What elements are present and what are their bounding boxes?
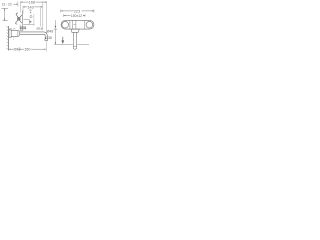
- vertical dim right: [54, 20, 57, 44]
- svg-text:G: G: [29, 8, 31, 12]
- right labels: [45, 29, 53, 40]
- body centerline below: [12, 37, 14, 40]
- vertical dim 13-23: [2, 8, 9, 20]
- body front view: [61, 20, 94, 29]
- handle foot nut: [20, 27, 25, 29]
- valve box: [23, 19, 34, 24]
- dim 223 right: [61, 10, 94, 14]
- svg-text:Ø48: Ø48: [47, 29, 54, 33]
- faucet body: [11, 31, 20, 37]
- svg-text:G38: G38: [45, 36, 52, 40]
- baseline: [54, 43, 73, 45]
- svg-text:168: 168: [29, 1, 35, 5]
- aerator: [45, 39, 48, 41]
- svg-text:223: 223: [74, 10, 80, 14]
- escutcheon: [9, 30, 11, 37]
- dim 143 line: [23, 6, 43, 10]
- svg-text:150: 150: [24, 48, 30, 52]
- union hooks on wall: [9, 28, 12, 31]
- spout: [20, 32, 48, 39]
- label 13-23: [2, 1, 18, 6]
- dim 168 line: [21, 1, 47, 5]
- cross handle: [15, 13, 22, 24]
- handle base cylinder: [19, 25, 21, 31]
- svg-text:13 - 23: 13 - 23: [2, 2, 12, 6]
- spout collar front: [71, 29, 79, 32]
- svg-text:59: 59: [14, 48, 18, 52]
- spout stem front: [73, 32, 76, 49]
- flow arrow: [62, 37, 64, 41]
- G symbol stack: [29, 8, 32, 18]
- dim 150+-12 right: [64, 14, 85, 18]
- svg-text:150±12: 150±12: [71, 14, 82, 18]
- bottom dim 59 150: [9, 47, 46, 51]
- wall hatched: [6, 26, 8, 51]
- handle rear plate: [22, 10, 24, 30]
- svg-text:Ø18: Ø18: [37, 27, 43, 31]
- extension lines top: [20, 1, 46, 51]
- faint extension x34: [33, 14, 35, 26]
